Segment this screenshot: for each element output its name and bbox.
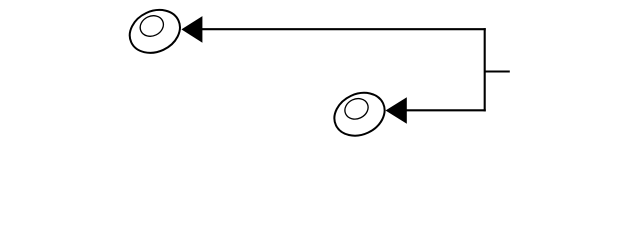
cell 1 outer ellipse	[123, 2, 187, 61]
cell 1 nucleus ellipse	[137, 12, 167, 40]
arrowhead into cell 2	[386, 97, 407, 124]
arrowhead into cell 1	[181, 16, 202, 43]
cell 2 nucleus ellipse	[342, 95, 372, 123]
wire input stub	[485, 70, 510, 72]
cell 2 outer ellipse	[327, 85, 391, 144]
wire bottom horizontal	[405, 109, 486, 111]
wire right vertical	[484, 28, 486, 111]
wire top horizontal	[200, 28, 486, 30]
